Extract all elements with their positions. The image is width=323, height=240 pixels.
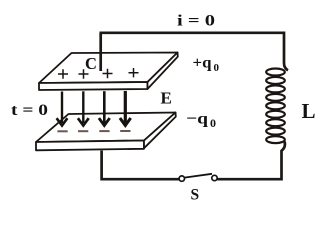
svg-text:0: 0 [210,116,216,130]
svg-text:L: L [302,99,316,123]
inductor L coil [266,69,285,144]
switch S [179,174,217,182]
svg-text:+q: +q [193,55,212,72]
E field arrows between plates [57,91,131,126]
svg-text:E: E [161,89,172,108]
plus charges on top plate [58,68,139,79]
minus charges on bottom plate [57,130,130,132]
svg-text:S: S [191,187,200,204]
wire: bottom plate lead down to bottom-left corner [102,151,179,180]
svg-text:−q: −q [186,111,208,128]
wire: inductor bottom to lower-right corner [217,142,285,180]
wire: top plate lead up and across to inductor [100,33,289,71]
svg-text:0: 0 [214,62,220,74]
svg-text:i = 0: i = 0 [177,13,215,30]
svg-text:t = 0: t = 0 [11,102,48,119]
capacitor C top plate [39,53,178,91]
svg-text:C: C [85,54,97,73]
capacitor C bottom plate [36,113,176,151]
